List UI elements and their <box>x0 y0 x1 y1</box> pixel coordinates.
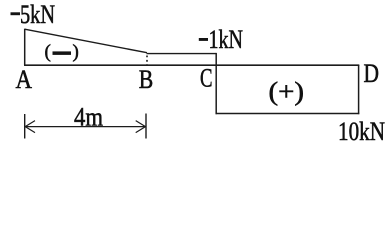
bottom of rectangle C to D at +10kN <box>216 113 360 115</box>
svg-text:): ) <box>73 41 79 62</box>
jump line at C down to +10kN <box>215 53 217 114</box>
svg-text:10kN: 10kN <box>338 117 385 146</box>
label -5kN minus sign <box>11 12 21 15</box>
sloped shear line A to B <box>25 29 147 53</box>
ordinate line at A (value -5kN) <box>24 29 26 65</box>
baseline axis A to D <box>24 64 359 66</box>
svg-text:(: ( <box>45 41 51 62</box>
dimension extension tick at A <box>24 114 26 139</box>
svg-text:C: C <box>200 64 213 93</box>
svg-text:A: A <box>16 65 33 94</box>
dimension line 4m <box>26 126 146 128</box>
svg-text:B: B <box>139 65 154 94</box>
svg-text:1kN: 1kN <box>209 25 244 54</box>
dimension arrowhead left <box>25 121 35 133</box>
svg-text:(+): (+) <box>269 77 305 106</box>
dimension arrowhead right <box>136 121 146 133</box>
svg-text:4m: 4m <box>74 103 103 132</box>
shear line B to C at -1kN level <box>147 53 217 55</box>
dimension extension tick at B <box>145 114 147 139</box>
label -1kN minus sign <box>199 38 208 41</box>
svg-text:5kN: 5kN <box>20 0 55 29</box>
svg-text:D: D <box>364 59 380 88</box>
ordinate line at D <box>358 65 360 114</box>
dotted ordinate at B <box>146 56 148 66</box>
